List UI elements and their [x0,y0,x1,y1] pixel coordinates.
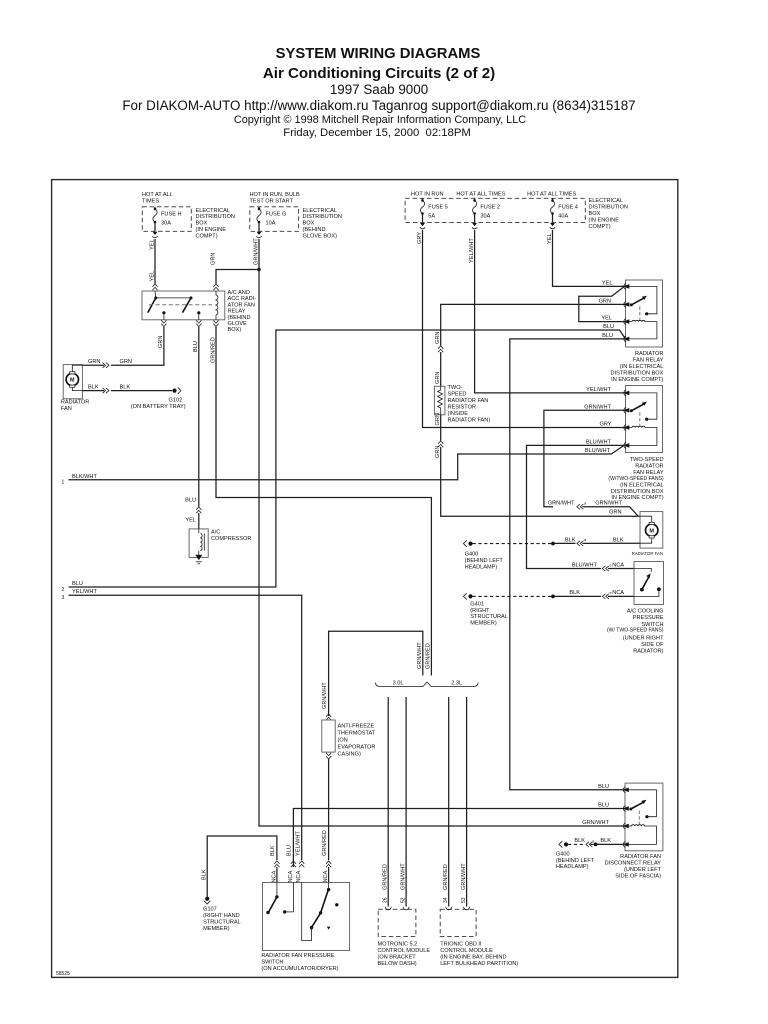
wire to Trionic pin 53 [466,697,468,907]
Motronic 5.2 control module box (dashed) [378,909,416,936]
wire BLU relay down to compressor connector [198,327,200,507]
connector on GRN lower [438,441,443,447]
NO contact dot [645,815,648,818]
switch pivot dot [630,303,633,306]
svg-text:NCA: NCA [296,870,302,882]
wire GRN/WHT loop over brace [329,631,423,716]
svg-text:(IN ENGINE: (IN ENGINE [589,218,620,224]
svg-text:BOX: BOX [303,220,315,226]
svg-text:GRN/WHT: GRN/WHT [400,863,406,890]
svg-text:PRESSURE: PRESSURE [633,615,664,621]
svg-text:RELAY: RELAY [228,309,246,315]
right radiator fan motor box [640,512,663,548]
wire GRN to resistor [440,352,442,386]
svg-text:RADIATOR FAN PRESSURE: RADIATOR FAN PRESSURE [261,953,334,959]
svg-text:STRUCTURAL: STRUCTURAL [203,920,241,926]
svg-text:ELECTRICAL: ELECTRICAL [589,198,624,204]
internal pin3 path and right switch chain [302,883,331,941]
switch arm [640,573,651,591]
svg-text:YEL: YEL [547,233,553,244]
wire to Trionic pin 34 [448,697,450,907]
connector pin3 [299,861,304,867]
svg-text:RADIATOR FAN): RADIATOR FAN) [448,417,491,423]
fuse box right (dashed) [405,198,585,222]
pin 3 YEL [623,319,629,325]
svg-text:STRUCTURAL: STRUCTURAL [470,614,508,620]
svg-text:FAN: FAN [61,406,72,412]
wire GRN below resistor [440,415,442,441]
svg-text:For DIAKOM-AUTO http://www.dia: For DIAKOM-AUTO http://www.diakom.ru Tag… [122,98,635,113]
svg-text:(IN ELECTRICAL: (IN ELECTRICAL [620,482,664,488]
svg-text:e: e [610,563,612,567]
svg-text:GRN: GRN [435,446,441,458]
svg-text:FUSE 4: FUSE 4 [558,205,578,211]
svg-text:YEL/WHT: YEL/WHT [469,238,475,263]
svg-text:RADIATOR FAN: RADIATOR FAN [448,398,489,404]
label HOT AT ALL TIMES [142,192,173,205]
svg-text:2.3L: 2.3L [451,681,462,687]
svg-text:YEL: YEL [601,316,612,322]
svg-text:RADIATOR FAN: RADIATOR FAN [620,854,661,860]
label electrical distribution box (in engine compt) [589,198,628,230]
relay label [611,351,664,383]
relay coil (vertical) [216,291,218,320]
svg-text:GRN/RED: GRN/RED [443,864,449,890]
fuse G symbol [257,207,261,232]
svg-text:(ON ACCUMULATOR/DRYER): (ON ACCUMULATOR/DRYER) [261,966,338,972]
svg-text:(ON BRACKET: (ON BRACKET [378,955,417,961]
contact dot and stub to pin2 [634,587,661,596]
svg-text:HOT AT ALL TIMES: HOT AT ALL TIMES [527,192,576,198]
relay internal: pin1 to NO contact [629,286,657,313]
svg-text:TWO-SPEED: TWO-SPEED [630,457,664,463]
pin 3 GRN/WHT [623,823,629,829]
svg-text:RADIATOR FAN: RADIATOR FAN [632,551,663,556]
wire BLK to relay pin 4 [596,843,625,845]
svg-text:YEL: YEL [185,518,196,524]
relay coil [629,426,657,445]
svg-text:(IN ENGINE BAY, BEHIND: (IN ENGINE BAY, BEHIND [440,955,506,961]
wire GRN relay to radiator fan [113,327,164,365]
svg-text:BOX: BOX [589,211,601,217]
svg-text:M: M [70,378,75,384]
svg-text:(IN ENGINE: (IN ENGINE [196,227,227,233]
svg-text:53: 53 [461,897,467,903]
pin 2 GRN/WHT [623,407,629,413]
label G400 (BEHIND LEFT HEADLAMP) [556,851,595,870]
connector pin2 [291,861,296,867]
wire dashed ground to junction [473,595,552,597]
svg-text:SIDE OF FASCIA): SIDE OF FASCIA) [615,873,661,879]
svg-text:(RIGHT: (RIGHT [470,608,490,614]
svg-text:HEADLAMP): HEADLAMP) [465,564,498,570]
label G107 (RIGHT HAND STRUCTURAL MEMBER) [203,907,241,932]
NO contact dot [645,312,648,315]
svg-text:1: 1 [62,479,65,485]
pressure switch box [263,883,350,951]
label G401 (RIGHT STRUCTURAL MEMBER) [470,601,508,626]
svg-text:GLOVE BOX): GLOVE BOX) [303,233,338,239]
pin 1 YEL/WHT [623,390,629,396]
svg-text:BLK: BLK [120,385,131,391]
motor symbol [640,516,658,543]
wire BLK fan to ground G102 [82,388,172,393]
switch pivot dot [630,409,633,412]
wire GRN/WHT long vertical to disconnect relay [259,270,625,827]
svg-text:NCA: NCA [612,590,624,596]
svg-text:5A: 5A [428,214,435,220]
Trionic OBD II control module box (dashed) [440,909,476,936]
wire YEL bracket pin3 to pin1 [579,287,626,322]
node junction BLK [551,542,555,546]
ground G102 symbol [172,387,181,393]
svg-text:FUSE G: FUSE G [266,212,287,218]
svg-text:GRN: GRN [435,413,441,425]
resistor zigzag [438,386,443,415]
connector on GRN [438,346,443,352]
svg-text:GLOVE: GLOVE [228,321,248,327]
svg-text:DISTRIBUTION BOX: DISTRIBUTION BOX [611,489,664,495]
svg-text:GRY: GRY [417,232,423,244]
wire BLK ground to switch pin 1 [207,836,277,897]
mechanical dashed link [638,811,640,825]
wire net2 BLU to radiator fan relay pin 5 [69,330,626,587]
ground G400 (behind left headlamp) [559,841,568,847]
svg-text:GRN: GRN [599,298,611,304]
wire GRN/WHT to motor merge [583,507,639,517]
pin 4 BLK [623,842,629,848]
switch arm 1 [148,298,156,313]
svg-text:BLK: BLK [270,845,276,856]
wire pin4 into box [328,867,330,883]
svg-text:SIDE OF: SIDE OF [641,642,664,648]
thermostat label [338,723,376,757]
svg-text:HOT AT ALL: HOT AT ALL [142,192,173,198]
contact stubs to bottom pins [164,313,199,320]
svg-text:Friday, December 15, 2000 02:: Friday, December 15, 2000 02:18PM [283,127,471,139]
fuse H symbol [153,207,157,232]
fuse 4 symbol [550,198,554,222]
wire BLU disconnect feed from relay1 pin5 [510,339,626,790]
connector on compressor feed [196,507,201,513]
svg-text:YEL: YEL [602,280,613,286]
wire pin1 into box [276,867,278,883]
connector pin4 [326,861,331,867]
label G400 (BEHIND LEFT HEADLAMP) [465,551,504,570]
svg-text:DISTRIBUTION: DISTRIBUTION [196,214,235,220]
connector at relay pin 1 top [152,284,157,290]
mechanical dashed link [639,412,641,426]
svg-text:IN ENGINE COMPT): IN ENGINE COMPT) [611,377,663,383]
svg-text:(IN ELECTRICAL: (IN ELECTRICAL [620,364,664,370]
svg-text:DISCONNECT RELAY: DISCONNECT RELAY [605,860,662,866]
svg-text:MOTRONIC 5.2: MOTRONIC 5.2 [378,942,418,948]
svg-text:CASING): CASING) [338,751,361,757]
svg-text:3: 3 [62,595,65,601]
relay label [608,457,663,501]
svg-text:GRN/WHT: GRN/WHT [461,863,467,890]
wire BLK to switch with connector [553,594,634,599]
title header [122,46,635,139]
svg-text:HEADLAMP): HEADLAMP) [556,864,589,870]
svg-text:DISTRIBUTION: DISTRIBUTION [303,214,342,220]
label FUSE 2 30A [480,205,500,220]
pin 1 YEL [623,284,629,290]
svg-text:1997 Saab 9000: 1997 Saab 9000 [330,82,428,97]
svg-text:40A: 40A [558,214,568,220]
wire GRN/RED relay down and right to engine brace [216,327,431,676]
pin 2 GRN [623,302,629,308]
svg-text:GRN: GRN [435,332,441,344]
svg-text:YEL/WHT: YEL/WHT [586,387,611,393]
svg-text:GRN/RED: GRN/RED [426,643,432,669]
label A/C COMPRESSOR [211,530,251,543]
svg-text:BLK: BLK [574,838,585,844]
motor symbol [66,365,82,390]
pin 3 GRY [623,425,629,431]
pin 2 BLU [623,806,629,812]
pin socket arcs Trionic [446,907,470,910]
contact dot 1 [162,311,165,314]
label FUSE G 10A [266,212,287,227]
pin 5 BLU [623,336,629,342]
connector below thermostat [326,753,331,759]
engine brace 3.0L / 2.3L [376,682,479,687]
svg-text:BLK: BLK [201,869,207,880]
label HOT IN RUN, BULB TEST OR START [250,192,301,205]
svg-text:BLU/WHT: BLU/WHT [586,439,612,445]
svg-text:GRN/RED: GRN/RED [322,830,328,856]
svg-text:G107: G107 [203,907,217,913]
svg-text:2: 2 [62,587,65,593]
svg-text:YEL: YEL [150,271,156,282]
switch pivot dot [629,808,632,811]
fuse 5 symbol [420,198,424,222]
svg-text:TRIONIC OBD II: TRIONIC OBD II [440,942,482,948]
relay coil [629,320,657,339]
compressor box [189,529,208,558]
wire YEL into compressor [198,513,200,529]
connector below relay pin GRN [161,320,166,326]
svg-text:(BEHIND: (BEHIND [228,315,251,321]
label G102 (on battery tray) [131,398,186,410]
svg-text:BLK: BLK [600,838,611,844]
fuse box G (dashed) [250,207,299,232]
wire BLK to motor with connector [553,541,640,546]
switch internal: pin1 line [634,569,651,572]
wire link between pivots [156,297,191,299]
lone contact dot lower [327,927,331,930]
svg-text:FAN RELAY: FAN RELAY [633,358,664,364]
mechanical dashed link [639,307,641,321]
svg-text:30A: 30A [480,214,490,220]
ground G401 (right structural member) [463,593,472,599]
svg-text:BLU: BLU [185,498,196,504]
svg-text:M: M [649,528,654,534]
svg-text:GRN: GRN [609,510,621,516]
node junction BLK [551,595,555,599]
svg-text:SYSTEM WIRING DIAGRAMS: SYSTEM WIRING DIAGRAMS [276,46,481,62]
relay internal: pin1 to NO contact [629,790,657,817]
svg-text:10A: 10A [266,221,276,227]
svg-text:(UNDER LEFT: (UNDER LEFT [624,867,662,873]
compressor ground triangle [195,555,202,564]
svg-text:FUSE 2: FUSE 2 [480,205,500,211]
svg-text:(INSIDE: (INSIDE [448,411,469,417]
svg-text:(W/ TWO-SPEED FANS): (W/ TWO-SPEED FANS) [607,628,664,634]
node junction BLK [594,843,598,847]
svg-text:BLK: BLK [88,385,99,391]
wire GRN down to right radiator fan motor [441,447,640,516]
svg-text:58525: 58525 [56,971,70,977]
Motronic label [378,942,431,968]
svg-text:NCA: NCA [288,870,294,882]
wire NCA into switch [608,568,634,570]
relay internal: pin1 stub to pivot [154,291,157,298]
switch arm with arrowhead [631,800,647,809]
svg-text:YEL/WHT: YEL/WHT [296,831,302,856]
pin 1 BLU [623,787,629,793]
svg-text:BLU: BLU [72,581,83,587]
svg-text:ATOR FAN: ATOR FAN [228,302,255,308]
svg-text:26: 26 [383,897,389,903]
switch label [261,953,338,972]
svg-text:GRY: GRY [599,422,611,428]
svg-text:NCA: NCA [612,563,624,569]
lone contact dot right [335,903,338,906]
svg-text:HOT IN RUN: HOT IN RUN [411,192,444,198]
relay box [626,386,663,453]
connector at relay pin 2 top [213,284,218,290]
svg-text:BLU/WHT: BLU/WHT [572,563,598,569]
svg-text:TWO-: TWO- [448,385,463,391]
svg-text:COMPT): COMPT) [196,233,218,239]
svg-text:(BEHIND: (BEHIND [303,227,326,233]
svg-text:MEMBER): MEMBER) [203,926,230,932]
label FUSE H 30A [161,212,182,227]
svg-text:(RIGHT HAND: (RIGHT HAND [203,913,240,919]
svg-text:Air Conditioning Circuits (2 o: Air Conditioning Circuits (2 of 2) [263,65,495,82]
connector below fuse H [152,232,157,238]
svg-text:MEMBER): MEMBER) [470,621,497,627]
svg-text:BLU: BLU [598,784,609,790]
wire YEL fuse 4 to radiator fan relay pin 1 [553,230,626,286]
svg-text:G400: G400 [556,851,570,857]
wire YEL fuse H to relay [154,239,156,284]
label electrical distribution box (in engine compt) [196,208,235,239]
svg-text:A/C AND: A/C AND [228,290,250,296]
wire GRN fan with connector [82,363,113,368]
connector below relay pin GRN/RED [213,320,218,326]
border frame [52,180,678,978]
wire net3 YEL/WHT to pressure switch [69,595,302,860]
connector above thermostat [326,714,331,720]
svg-text:(UNDER RIGHT: (UNDER RIGHT [623,635,664,641]
svg-text:TEST OR START: TEST OR START [250,199,294,205]
svg-text:GRN: GRN [435,372,441,384]
pressure switch box [634,562,664,605]
svg-text:GRN/WHT: GRN/WHT [582,820,609,826]
switch arm 2 [183,298,192,313]
svg-text:BLK/WHT: BLK/WHT [72,474,97,480]
label TWO-SPEED RADIATOR FAN RESISTOR (INSIDE RADIATOR FAN) [448,385,491,424]
node pivot 1 [154,296,157,299]
svg-text:(BEHIND LEFT: (BEHIND LEFT [556,858,595,864]
svg-text:RADIATOR): RADIATOR) [633,649,663,655]
wire to Motronic pin 26 [387,697,389,907]
svg-text:RADIATOR: RADIATOR [635,351,663,357]
label RADIATOR FAN [61,400,89,412]
svg-text:YEL/WHT: YEL/WHT [72,589,97,595]
svg-text:(ON: (ON [338,737,348,743]
label FUSE 4 40A [558,205,578,220]
svg-text:BLU: BLU [286,845,292,856]
svg-text:SWITCH: SWITCH [261,959,283,965]
relay internal: pin1 to NO contact [629,393,657,419]
internal pin1 stub and left switch [266,883,278,915]
svg-text:GRN/WHT: GRN/WHT [595,501,622,507]
relay coil [629,825,657,845]
svg-text:G401: G401 [470,601,484,607]
connector footnote marks [584,502,612,844]
svg-text:GRN/WHT: GRN/WHT [417,642,423,669]
svg-text:3.0L: 3.0L [393,681,404,687]
svg-text:(ON BATTERY TRAY): (ON BATTERY TRAY) [131,404,186,410]
svg-text:Copyright © 1998 Mitchell Repa: Copyright © 1998 Mitchell Repair Informa… [234,114,526,126]
svg-text:G102: G102 [169,398,183,404]
svg-text:CONTROL MODULE: CONTROL MODULE [378,948,431,954]
anti-freeze thermostat box [322,720,335,752]
wire dashed ground to junction [473,543,552,545]
radiator fan box [63,365,82,399]
svg-text:ANTI-FREEZE: ANTI-FREEZE [338,723,375,729]
fuse 2 symbol [473,198,477,222]
svg-text:A/C COOLING: A/C COOLING [627,609,664,615]
connector pin1 [274,861,279,867]
svg-text:TIMES: TIMES [142,199,159,205]
wire to Motronic pin 52 [405,697,407,907]
svg-text:RADIATOR: RADIATOR [61,400,89,406]
svg-text:ACC RADI-: ACC RADI- [228,296,257,302]
ground G400 (behind left headlamp) [463,540,472,546]
label electrical distribution box (behind glove box) [303,208,342,239]
compressor clutch coil [199,529,205,555]
connector below relay pin BLU [196,320,201,326]
wire GRN from radiator fan relay pin 2 [441,304,626,345]
svg-text:COMPRESSOR: COMPRESSOR [211,536,251,542]
svg-text:e: e [610,591,612,595]
label FUSE 5 5A [428,205,448,220]
svg-text:BOX: BOX [196,220,208,226]
svg-text:52: 52 [400,897,406,903]
relay box [626,280,663,347]
svg-text:BLU: BLU [602,333,613,339]
svg-text:BLU/WHT: BLU/WHT [585,448,611,454]
svg-text:(W/TWO-SPEED FANS): (W/TWO-SPEED FANS) [608,476,663,482]
svg-text:ELECTRICAL: ELECTRICAL [303,208,338,214]
wire dashed ground to junction with connector [568,842,594,847]
connector below fuse 2 [472,223,477,229]
connector on GRN/WHT [577,504,583,509]
svg-text:RADIATOR: RADIATOR [635,464,663,470]
svg-text:HOT AT ALL TIMES: HOT AT ALL TIMES [456,192,505,198]
svg-text:ELECTRICAL: ELECTRICAL [196,208,231,214]
svg-text:BOX): BOX) [228,327,242,333]
svg-text:HOT IN RUN, BULB: HOT IN RUN, BULB [250,192,301,198]
node junction GRN/WHT [257,268,260,271]
svg-text:COMPT): COMPT) [589,224,611,230]
connector below fuse 5 [420,223,425,229]
